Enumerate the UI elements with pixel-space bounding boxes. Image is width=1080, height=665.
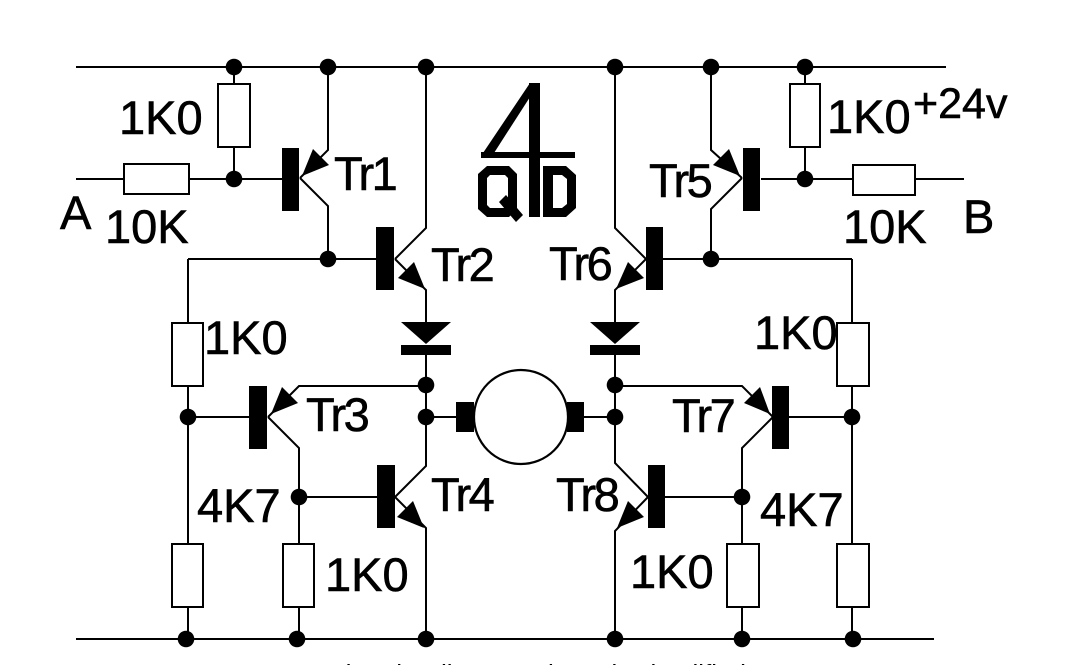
transistor Tr3 bar xyxy=(249,386,267,449)
transistor Tr6 bar xyxy=(646,227,663,290)
wire motor right terminal xyxy=(584,416,615,418)
resistor R6 1K0 right mid xyxy=(727,544,759,607)
transistor Tr5 emitter arrow xyxy=(713,149,740,176)
wire R9 top stub xyxy=(804,67,806,84)
junction bottom rail 4 xyxy=(607,631,624,648)
logo D xyxy=(543,166,576,217)
resistor R9 1K0 top right xyxy=(790,84,820,147)
logo Q xyxy=(478,166,517,217)
transistor Tr1 bar xyxy=(282,148,299,211)
wire R1 bottom stub xyxy=(233,147,235,179)
svg-text:1K0: 1K0 xyxy=(754,306,838,359)
junction top rail 5 xyxy=(703,59,720,76)
wire Tr8 emitter to rail xyxy=(615,497,648,639)
transistor Tr4 emitter arrow xyxy=(397,501,424,528)
svg-text:4K7: 4K7 xyxy=(760,483,844,536)
wire Tr3 base xyxy=(188,416,249,418)
resistor R10 10K right xyxy=(853,165,915,195)
junction node B divider xyxy=(797,171,814,188)
svg-text:Tr3: Tr3 xyxy=(306,388,369,441)
wire R1 top stub xyxy=(233,67,235,84)
wire right bias column middle xyxy=(851,386,853,544)
svg-text:Tr7: Tr7 xyxy=(672,389,734,442)
logo Q tail xyxy=(499,195,523,222)
svg-text:10K: 10K xyxy=(105,200,189,253)
wire A input xyxy=(76,178,124,180)
wire Tr4 collector to motor node xyxy=(395,417,426,497)
wire Tr6 emitter to diode xyxy=(615,259,646,322)
svg-text:Tr5: Tr5 xyxy=(649,154,712,207)
junction Tr8 base node xyxy=(734,489,751,506)
diode D2 xyxy=(590,322,640,355)
logo 4 diagonal xyxy=(483,83,539,153)
wire Tr4 emitter to rail xyxy=(395,497,426,639)
wire D2 to motor node xyxy=(614,355,616,417)
wire left bias column middle xyxy=(187,386,189,544)
wire R9 bottom stub xyxy=(804,147,806,179)
wire Tr3 collector xyxy=(268,417,299,544)
junction left motor node upper xyxy=(418,377,435,394)
wire right 1K0 mid bottom stub xyxy=(741,607,743,639)
junction Tr3 base node xyxy=(180,409,197,426)
wire Tr5 collector xyxy=(711,178,742,259)
logo 4 crossbar xyxy=(481,152,575,158)
junction top rail 2 xyxy=(320,59,337,76)
resistor R2 10K left xyxy=(124,164,189,194)
svg-text:Tr8: Tr8 xyxy=(556,468,619,521)
motor terminal left xyxy=(456,402,474,432)
svg-text:1K0: 1K0 xyxy=(827,90,911,143)
wire left bias column lower xyxy=(187,607,189,639)
junction Tr2 base node xyxy=(320,251,337,268)
svg-text:+24v: +24v xyxy=(913,80,1008,128)
svg-text:Tr4: Tr4 xyxy=(431,468,494,521)
resistor R4 4K7 left xyxy=(172,544,203,607)
junction top rail 3 xyxy=(418,59,435,76)
wire Tr7 emitter to motor node xyxy=(615,386,773,417)
transistor Tr2 bar xyxy=(376,227,394,290)
junction bottom rail 2 xyxy=(289,631,306,648)
wire Tr4 base xyxy=(299,496,377,498)
junction node A divider xyxy=(226,171,243,188)
junction Tr7 base node xyxy=(844,409,861,426)
transistor Tr5 bar xyxy=(743,148,760,211)
junction Tr4 base node xyxy=(291,489,308,506)
wire Tr1 emitter to rail xyxy=(300,67,328,178)
resistor R5 1K0 left mid xyxy=(283,544,314,607)
junction right motor node lower xyxy=(607,409,624,426)
wire Tr7 collector xyxy=(742,417,773,544)
wire left bias column upper xyxy=(187,259,189,323)
wire Tr2 base xyxy=(188,258,376,260)
svg-text:A: A xyxy=(60,186,92,239)
wire 10K to Tr1 base xyxy=(189,178,282,180)
svg-text:Tr2: Tr2 xyxy=(431,238,493,291)
svg-text:4K7: 4K7 xyxy=(197,479,281,532)
junction top rail 6 xyxy=(797,59,814,76)
svg-text:10K: 10K xyxy=(843,200,927,253)
svg-text:Tr6: Tr6 xyxy=(549,237,612,290)
transistor Tr8 bar xyxy=(648,465,665,528)
transistor Tr7 bar xyxy=(772,386,789,449)
wire 10K right to B xyxy=(915,178,964,180)
logo 4QD xyxy=(478,83,576,222)
junction bottom rail 5 xyxy=(734,631,751,648)
transistor Tr4 bar xyxy=(377,465,395,528)
wire top +24v rail xyxy=(76,66,946,68)
junction bottom rail 1 xyxy=(178,631,195,648)
transistor Tr6 emitter arrow xyxy=(616,262,644,289)
wire right bias column upper xyxy=(851,259,853,323)
svg-text:Beware that the diagram above: Beware that the diagram above is simplif… xyxy=(243,659,746,665)
resistor R7 4K7 right xyxy=(837,544,869,607)
svg-text:Tr1: Tr1 xyxy=(334,147,396,200)
wire Tr6 base xyxy=(663,258,852,260)
transistor Tr3 emitter arrow xyxy=(271,387,298,414)
transistor Tr8 emitter arrow xyxy=(617,501,644,528)
wire right bias column lower xyxy=(851,607,853,639)
resistor R3 1K0 left bias xyxy=(172,323,203,386)
wire Tr5 emitter to rail xyxy=(711,67,742,178)
svg-text:1K0: 1K0 xyxy=(325,548,409,601)
transistor Tr7 emitter arrow xyxy=(744,387,770,414)
wire Tr5 base to node xyxy=(761,178,853,180)
resistor R8 1K0 right bias xyxy=(837,323,869,386)
wire left 1K0 mid bottom stub xyxy=(298,607,300,639)
logo 4 vertical xyxy=(529,83,540,217)
transistor Tr1 emitter arrow xyxy=(302,149,329,176)
wire bottom 0v rail xyxy=(76,638,934,640)
wire Tr7 base xyxy=(789,416,852,418)
junction right motor node upper xyxy=(607,377,624,394)
wire Tr8 collector to motor node xyxy=(615,417,648,497)
motor terminal right xyxy=(567,402,584,432)
junction Tr6 base node xyxy=(703,251,720,268)
wire Tr2 emitter to diode xyxy=(395,259,426,322)
svg-text:1K0: 1K0 xyxy=(119,91,203,144)
junction bottom rail 3 xyxy=(418,631,435,648)
diode D1 xyxy=(401,322,451,355)
wire motor left terminal xyxy=(426,416,456,418)
motor M xyxy=(474,370,568,464)
junction top rail 1 xyxy=(226,59,243,76)
svg-text:1K0: 1K0 xyxy=(204,311,288,364)
junction top rail 4 xyxy=(607,59,624,76)
wire Tr3 emitter to motor node xyxy=(268,386,426,417)
resistor R1 1K0 top left xyxy=(218,84,250,147)
wire Tr6 collector to rail xyxy=(615,67,646,259)
wire Tr2 collector to rail xyxy=(395,67,426,259)
transistor Tr2 emitter arrow xyxy=(398,262,425,289)
wire D1 to motor node xyxy=(425,355,427,417)
wire Tr8 base xyxy=(665,496,742,498)
svg-text:1K0: 1K0 xyxy=(630,545,714,598)
junction left motor node lower xyxy=(418,409,435,426)
svg-text:B: B xyxy=(963,190,994,243)
junction bottom rail 6 xyxy=(845,631,862,648)
wire Tr1 collector xyxy=(300,178,328,259)
